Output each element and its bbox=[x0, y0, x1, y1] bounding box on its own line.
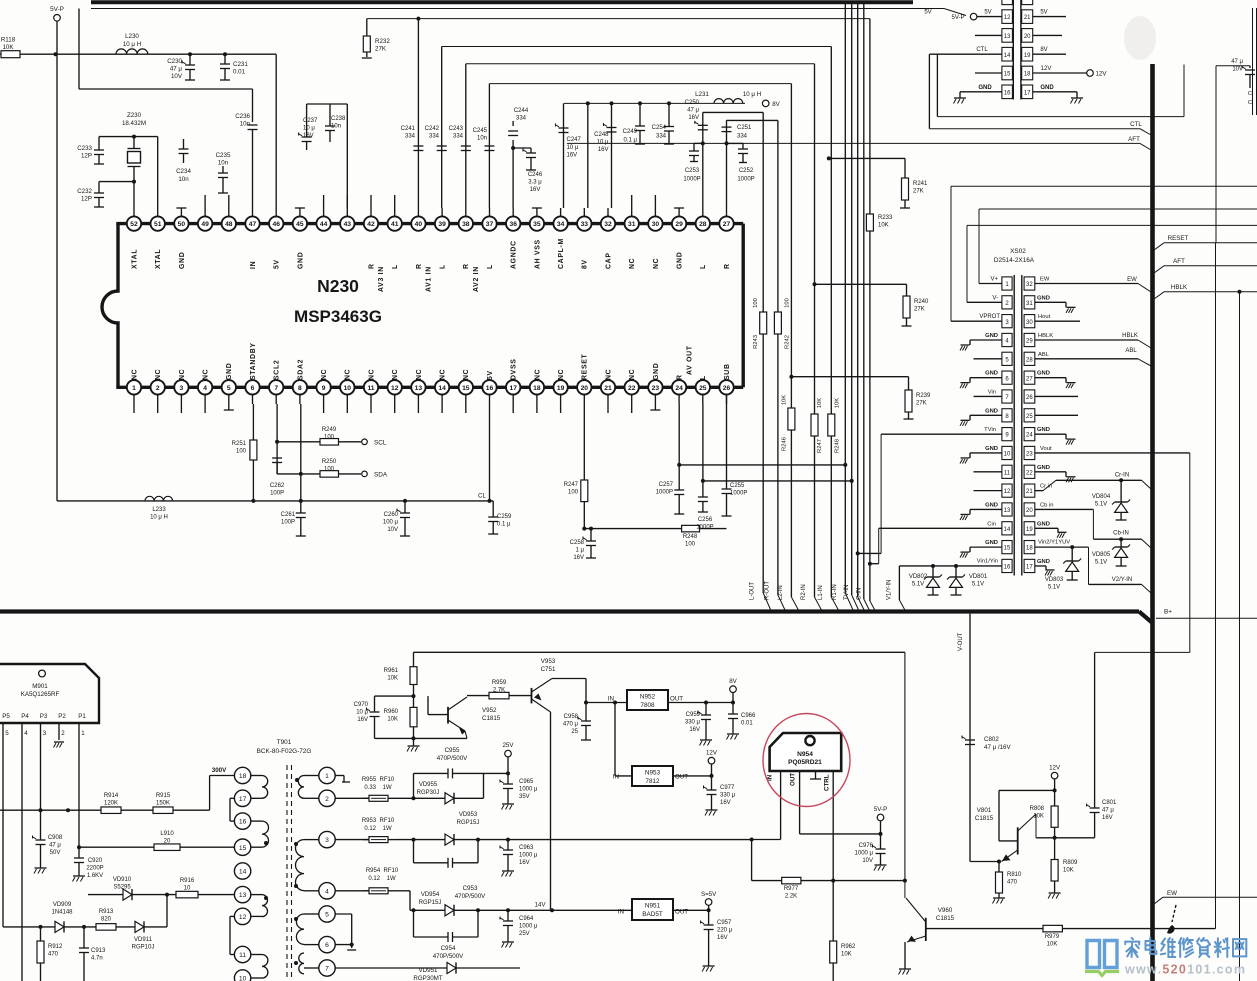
wire XS02 pin15 GND bbox=[970, 546, 1002, 548]
svg-text:CTL: CTL bbox=[1130, 121, 1142, 128]
connector XS02 body bbox=[1013, 275, 1015, 576]
capacitor C254 bbox=[667, 101, 671, 105]
wire XS02 VPROT bbox=[951, 320, 1002, 322]
svg-text:18: 18 bbox=[1026, 546, 1033, 552]
pin 42 bbox=[364, 216, 378, 230]
svg-text:28: 28 bbox=[1026, 357, 1033, 363]
svg-text:334: 334 bbox=[453, 133, 464, 139]
resistor R953 RF10 bbox=[369, 837, 388, 843]
svg-text:12V: 12V bbox=[706, 750, 718, 757]
svg-text:16: 16 bbox=[239, 819, 247, 826]
svg-text:R: R bbox=[368, 263, 375, 269]
svg-text:5V-P: 5V-P bbox=[874, 806, 887, 813]
diode VD909 bbox=[55, 921, 64, 932]
svg-text:L233: L233 bbox=[152, 507, 166, 513]
M901 P2 ground bbox=[54, 741, 64, 743]
pin 22 bbox=[625, 380, 639, 394]
svg-text:100: 100 bbox=[568, 489, 579, 495]
pin 4 bbox=[198, 380, 212, 394]
wire pin14 box drop bbox=[936, 54, 938, 116]
svg-text:10: 10 bbox=[344, 385, 352, 392]
transistor V953 bbox=[531, 688, 533, 704]
wire from top to C236 bbox=[78, 9, 80, 90]
svg-text:NC: NC bbox=[534, 369, 541, 380]
svg-text:C251: C251 bbox=[737, 125, 752, 131]
wire pin4 row bbox=[335, 890, 369, 892]
pin 8 bbox=[293, 380, 307, 394]
svg-text:R251: R251 bbox=[232, 441, 247, 447]
svg-text:C230: C230 bbox=[167, 58, 182, 65]
gray smudge bbox=[1124, 16, 1156, 60]
capacitor C245 bbox=[484, 145, 494, 147]
svg-text:10K: 10K bbox=[817, 398, 823, 408]
wire XS02 Vout bbox=[1035, 452, 1190, 454]
pin 1 bbox=[127, 380, 141, 394]
svg-text:10K: 10K bbox=[2, 44, 14, 51]
svg-text:330 μ: 330 μ bbox=[685, 719, 701, 725]
svg-text:HBLK: HBLK bbox=[1038, 333, 1053, 339]
svg-text:14: 14 bbox=[1004, 53, 1011, 59]
T901 pin 1 bbox=[319, 767, 335, 783]
wire L910 row bbox=[77, 845, 81, 849]
N954 pin CTRL bbox=[832, 771, 834, 881]
svg-text:8: 8 bbox=[298, 385, 302, 392]
wire vertical bus4 bbox=[863, 3, 865, 599]
T901 pin 2 bbox=[319, 790, 335, 806]
IC N230 body bbox=[102, 224, 118, 388]
svg-text:48: 48 bbox=[225, 221, 233, 228]
pin 19 bbox=[553, 380, 567, 394]
capacitor C234 bbox=[183, 139, 185, 149]
wire vertical L2-IN bbox=[790, 84, 792, 597]
svg-text:27: 27 bbox=[723, 221, 731, 228]
svg-text:Vin: Vin bbox=[988, 389, 996, 395]
pin 28 bbox=[696, 216, 710, 230]
wire XS02 ABL bbox=[1035, 358, 1138, 360]
pin 50 bbox=[174, 216, 188, 230]
svg-text:C236: C236 bbox=[235, 113, 250, 120]
svg-text:7: 7 bbox=[274, 385, 278, 392]
svg-text:C908: C908 bbox=[48, 835, 63, 841]
wire pin15 stub bbox=[975, 72, 1002, 74]
T901 pin 10 bbox=[234, 970, 250, 981]
diode VD955 bbox=[414, 797, 446, 799]
svg-text:16V: 16V bbox=[688, 115, 699, 121]
svg-text:47 μ: 47 μ bbox=[170, 66, 183, 73]
svg-text:R959: R959 bbox=[492, 680, 507, 686]
T901 right winding 6-7 bbox=[299, 953, 304, 974]
svg-text:D2514-2X16A: D2514-2X16A bbox=[994, 257, 1035, 264]
svg-text:14: 14 bbox=[1004, 527, 1011, 533]
capacitor C959 bbox=[705, 703, 707, 716]
svg-text:HBLK: HBLK bbox=[1122, 333, 1138, 339]
pin 15 bbox=[459, 380, 473, 394]
section divider thick line bbox=[0, 609, 1139, 613]
svg-text:R: R bbox=[677, 374, 684, 380]
svg-text:35V: 35V bbox=[519, 794, 530, 800]
pin 37 bbox=[482, 216, 496, 230]
pin 40 bbox=[411, 216, 425, 230]
svg-text:RESET: RESET bbox=[582, 353, 589, 380]
svg-text:L1-IN: L1-IN bbox=[818, 585, 824, 600]
svg-text:11: 11 bbox=[367, 385, 374, 392]
svg-text:RGP15J: RGP15J bbox=[419, 900, 442, 906]
wire pin19 8V bbox=[1033, 53, 1066, 55]
svg-text:16V: 16V bbox=[1102, 815, 1113, 821]
svg-text:49: 49 bbox=[201, 221, 209, 228]
svg-text:16V: 16V bbox=[717, 935, 728, 941]
svg-text:18.432M: 18.432M bbox=[122, 120, 146, 127]
svg-text:R118: R118 bbox=[1, 37, 16, 44]
diode VD954 bbox=[445, 905, 454, 916]
svg-text:EW: EW bbox=[1040, 277, 1050, 283]
svg-text:IN: IN bbox=[608, 696, 614, 703]
wire XS02 pin26 stub right bbox=[1035, 395, 1078, 397]
capacitor top-right 47u bbox=[1216, 65, 1250, 67]
svg-text:C963: C963 bbox=[519, 845, 534, 851]
resistor R240 tap bbox=[813, 282, 817, 286]
svg-text:2.7K: 2.7K bbox=[493, 688, 505, 694]
svg-text:R247: R247 bbox=[564, 482, 579, 488]
svg-text:R808: R808 bbox=[1030, 806, 1045, 812]
wire pin38 riser bbox=[465, 64, 467, 208]
svg-text:0.1 μ: 0.1 μ bbox=[497, 521, 511, 527]
svg-text:50V: 50V bbox=[50, 850, 61, 856]
svg-text:10: 10 bbox=[239, 976, 247, 981]
svg-text:TV-IN: TV-IN bbox=[844, 585, 850, 600]
svg-text:4: 4 bbox=[203, 385, 207, 392]
svg-text:100: 100 bbox=[324, 467, 335, 473]
thick bus vertical bbox=[1150, 64, 1155, 981]
label RESET right bbox=[1154, 243, 1164, 250]
wire CL rail bbox=[56, 500, 58, 502]
resistor R962 bbox=[832, 881, 834, 941]
transistor V960 bbox=[904, 881, 906, 898]
svg-text:NC: NC bbox=[368, 369, 375, 380]
T901 pin 16 bbox=[234, 813, 250, 829]
resistor R810 bbox=[998, 862, 1000, 873]
wire vertical R1-IN bbox=[844, 3, 846, 593]
svg-text:ABL: ABL bbox=[1038, 352, 1050, 358]
svg-text:12: 12 bbox=[239, 914, 247, 921]
resistor R248b bbox=[828, 414, 835, 436]
wire N952 feed bbox=[585, 679, 587, 703]
svg-text:ABL: ABL bbox=[1125, 348, 1137, 354]
capacitor C231 bbox=[223, 52, 227, 56]
resistor R248 bbox=[682, 525, 700, 532]
wire P5 vertical bbox=[2, 740, 4, 927]
svg-text:GND: GND bbox=[985, 408, 998, 414]
svg-text:470P/500V: 470P/500V bbox=[455, 893, 486, 900]
svg-text:18: 18 bbox=[533, 385, 541, 392]
wire N952 out 8V bbox=[668, 702, 733, 704]
svg-text:41: 41 bbox=[391, 221, 399, 228]
svg-text:C262: C262 bbox=[270, 483, 285, 489]
IC bottom pin bus bbox=[116, 386, 743, 389]
svg-text:GND: GND bbox=[1037, 371, 1050, 377]
svg-text:AV1 IN: AV1 IN bbox=[426, 266, 433, 292]
pin 21 bbox=[601, 380, 615, 394]
wire vertical R-OUT bbox=[727, 119, 778, 121]
svg-text:NC: NC bbox=[629, 258, 636, 269]
svg-text:38: 38 bbox=[462, 221, 470, 228]
resistor R809 bbox=[1054, 838, 1056, 860]
terminal 8V (L231) bbox=[762, 100, 769, 107]
svg-text:C250: C250 bbox=[685, 100, 700, 106]
capacitor C958 bbox=[585, 703, 587, 722]
diode VD951 partial bbox=[335, 967, 447, 969]
svg-text:8V: 8V bbox=[1040, 47, 1047, 53]
svg-text:Vin2/Y1YUV: Vin2/Y1YUV bbox=[1038, 540, 1070, 546]
svg-text:334: 334 bbox=[737, 134, 748, 140]
T901 left winding 16-15 bbox=[262, 821, 269, 847]
svg-text:16V: 16V bbox=[357, 717, 368, 723]
svg-text:50: 50 bbox=[178, 221, 186, 228]
pin 12 bbox=[388, 380, 402, 394]
pin 43 bbox=[340, 216, 354, 230]
svg-text:31: 31 bbox=[628, 221, 636, 228]
svg-text:AV OUT: AV OUT bbox=[687, 345, 694, 375]
svg-text:NC: NC bbox=[629, 369, 636, 380]
svg-text:27: 27 bbox=[1026, 376, 1033, 382]
svg-text:7: 7 bbox=[325, 966, 329, 973]
pin 16 bbox=[482, 380, 496, 394]
svg-text:C248: C248 bbox=[594, 132, 609, 138]
svg-text:C234: C234 bbox=[176, 168, 191, 175]
svg-text:15: 15 bbox=[1004, 546, 1011, 552]
svg-text:8V: 8V bbox=[729, 678, 737, 685]
svg-text:220 μ: 220 μ bbox=[717, 927, 733, 933]
svg-text:8V: 8V bbox=[772, 101, 780, 108]
svg-text:GND: GND bbox=[677, 252, 684, 269]
svg-text:SCL2: SCL2 bbox=[274, 360, 281, 380]
svg-text:C958: C958 bbox=[564, 714, 579, 720]
wire XS02 pin11 stub bbox=[974, 471, 1002, 473]
svg-text:12: 12 bbox=[1004, 489, 1011, 495]
svg-text:18: 18 bbox=[239, 773, 247, 780]
wire CTL pin14 bbox=[929, 53, 1002, 55]
wire AFT horizontal bbox=[567, 142, 1140, 144]
svg-text:0.01: 0.01 bbox=[741, 720, 753, 726]
T901 left winding 13-12 bbox=[262, 895, 268, 917]
svg-text:R912: R912 bbox=[48, 944, 63, 950]
svg-text:N951: N951 bbox=[645, 903, 661, 910]
T901 pin 18 bbox=[234, 767, 250, 783]
wire XS02 pin10 GND bbox=[970, 452, 1002, 454]
svg-text:1000 μ: 1000 μ bbox=[519, 923, 538, 929]
capacitor C963 bbox=[507, 840, 509, 850]
svg-text:IN: IN bbox=[618, 909, 624, 916]
svg-text:VD804: VD804 bbox=[1092, 494, 1111, 500]
svg-text:330 μ: 330 μ bbox=[720, 792, 736, 798]
svg-text:10V: 10V bbox=[862, 858, 873, 864]
svg-text:100: 100 bbox=[784, 298, 790, 308]
svg-text:16V: 16V bbox=[567, 153, 578, 159]
capacitor C255 bbox=[726, 395, 728, 490]
svg-text:100: 100 bbox=[236, 448, 247, 454]
svg-text:21: 21 bbox=[1024, 15, 1031, 21]
svg-text:10K: 10K bbox=[387, 716, 398, 722]
svg-text:NC: NC bbox=[345, 369, 352, 380]
svg-text:R246: R246 bbox=[782, 437, 788, 451]
svg-text:10K: 10K bbox=[782, 395, 788, 405]
svg-text:C237: C237 bbox=[303, 118, 318, 124]
svg-text:L: L bbox=[700, 375, 707, 380]
svg-text:5V: 5V bbox=[487, 370, 494, 380]
svg-text:16: 16 bbox=[1004, 90, 1011, 96]
svg-text:NC: NC bbox=[392, 369, 399, 380]
svg-text:HBLK: HBLK bbox=[1171, 284, 1188, 291]
label EW right bbox=[1154, 897, 1163, 904]
resistor R246 bbox=[788, 408, 795, 430]
capacitor C970 bbox=[374, 696, 376, 712]
pin 47 bbox=[245, 216, 259, 230]
resistor R249 bbox=[277, 441, 320, 443]
svg-text:C256: C256 bbox=[698, 517, 713, 523]
wire XS02 pin31 GND right bbox=[1035, 301, 1066, 303]
svg-text:GND: GND bbox=[985, 540, 998, 546]
svg-text:0.33 1W: 0.33 1W bbox=[364, 785, 392, 791]
svg-text:2: 2 bbox=[61, 730, 65, 737]
capacitor C258 bbox=[589, 527, 593, 531]
pin 52 bbox=[127, 216, 141, 230]
wire pin17 GND bbox=[1033, 91, 1077, 93]
wire vertical C-IN (R233) bbox=[869, 19, 871, 214]
svg-text:VPROT: VPROT bbox=[979, 314, 1000, 320]
wire Vout link bbox=[1095, 651, 1190, 653]
wire right vertical 1239 bbox=[1239, 292, 1241, 981]
svg-text:R977: R977 bbox=[784, 886, 799, 892]
svg-text:16V: 16V bbox=[689, 727, 700, 733]
svg-text:334: 334 bbox=[656, 133, 667, 139]
svg-text:470: 470 bbox=[1007, 879, 1018, 885]
svg-text:7808: 7808 bbox=[640, 702, 655, 709]
pin 6 bbox=[245, 380, 259, 394]
svg-text:C235: C235 bbox=[216, 152, 231, 159]
svg-text:C: C bbox=[1248, 100, 1252, 106]
svg-text:RGP10J: RGP10J bbox=[132, 945, 155, 951]
svg-text:334: 334 bbox=[429, 133, 440, 139]
terminal 8V out bbox=[730, 686, 737, 693]
svg-text:GND: GND bbox=[297, 252, 304, 269]
svg-text:L: L bbox=[392, 264, 399, 269]
pin 23 bbox=[648, 380, 662, 394]
svg-text:27K: 27K bbox=[914, 306, 925, 312]
svg-text:C233: C233 bbox=[77, 145, 92, 152]
svg-text:23: 23 bbox=[1026, 452, 1033, 458]
capacitor C236 bbox=[248, 124, 258, 126]
svg-text:1000 μ: 1000 μ bbox=[519, 786, 538, 792]
svg-text:TVin: TVin bbox=[984, 427, 996, 433]
terminal 5V-P bottom bbox=[877, 814, 884, 821]
pin 13 bbox=[411, 380, 425, 394]
svg-text:3: 3 bbox=[43, 730, 47, 737]
wire XS02 pin22 GND right bbox=[1035, 471, 1066, 473]
pin 2 bbox=[151, 380, 165, 394]
svg-text:Vin1/Yin: Vin1/Yin bbox=[977, 558, 998, 564]
crystal bottom node bbox=[99, 181, 134, 183]
svg-text:11: 11 bbox=[1004, 470, 1011, 476]
svg-text:18: 18 bbox=[1024, 72, 1031, 78]
resistor R242 bbox=[774, 312, 781, 334]
svg-text:5.1V: 5.1V bbox=[912, 581, 924, 587]
svg-text:27K: 27K bbox=[375, 46, 387, 53]
svg-text:3.3 μ: 3.3 μ bbox=[528, 179, 542, 185]
svg-text:3: 3 bbox=[325, 837, 329, 844]
svg-text:GND: GND bbox=[226, 363, 233, 380]
svg-text:C244: C244 bbox=[514, 108, 529, 114]
T901 right winding 5-6 bbox=[296, 914, 304, 944]
svg-text:10V: 10V bbox=[387, 527, 398, 533]
svg-text:GND: GND bbox=[1037, 465, 1050, 471]
svg-text:C-IN: C-IN bbox=[856, 588, 862, 600]
transistor V801 bbox=[1017, 827, 1019, 854]
svg-text:VD953: VD953 bbox=[459, 812, 478, 818]
diode VD953 bbox=[445, 834, 454, 845]
resistor R916 bbox=[165, 893, 169, 897]
pin 11 bbox=[364, 380, 378, 394]
wire XS02 Vin1/Yin bbox=[899, 565, 1002, 567]
svg-text:10 μ: 10 μ bbox=[303, 126, 315, 132]
svg-text:C970: C970 bbox=[354, 702, 369, 708]
svg-text:STANDBY: STANDBY bbox=[250, 342, 257, 380]
svg-text:C259: C259 bbox=[497, 514, 512, 520]
pin 9 bbox=[316, 380, 330, 394]
wire bottom V952 bbox=[375, 737, 468, 739]
resistor R239 tap bbox=[789, 375, 793, 379]
inductor L231 bbox=[714, 99, 743, 104]
ink mark bbox=[1167, 925, 1175, 934]
crystal Z230 top node bbox=[99, 136, 158, 138]
wire emitter node bbox=[970, 861, 999, 863]
svg-text:14V: 14V bbox=[534, 902, 546, 909]
svg-text:L-OUT: L-OUT bbox=[750, 582, 756, 600]
svg-text:16V: 16V bbox=[573, 555, 584, 561]
svg-text:IN: IN bbox=[613, 774, 619, 781]
pin 10 bbox=[340, 380, 354, 394]
svg-text:VD803: VD803 bbox=[1045, 577, 1064, 583]
resistor R914 bbox=[101, 807, 121, 814]
svg-text:5.1V: 5.1V bbox=[1095, 501, 1107, 507]
capacitor C908 bbox=[40, 810, 42, 840]
svg-text:31: 31 bbox=[1026, 301, 1033, 307]
svg-text:10 μ H: 10 μ H bbox=[743, 91, 761, 98]
svg-text:NC: NC bbox=[321, 369, 328, 380]
svg-text:OUT: OUT bbox=[675, 909, 688, 916]
svg-text:GND: GND bbox=[1037, 295, 1050, 301]
pin 18 bbox=[530, 380, 544, 394]
svg-text:25: 25 bbox=[699, 385, 707, 392]
wire V-OUT vertical bbox=[969, 614, 971, 862]
svg-text:RGP30MT: RGP30MT bbox=[413, 975, 442, 981]
wire vertical bus2 bbox=[851, 3, 853, 595]
svg-text:SDA: SDA bbox=[374, 472, 388, 479]
svg-text:Cr-IN: Cr-IN bbox=[1115, 473, 1129, 479]
capacitor C966 bbox=[732, 703, 734, 715]
svg-text:R2-IN: R2-IN bbox=[801, 584, 807, 600]
wire XS02 Cb in bbox=[1035, 508, 1094, 510]
terminal 5V-P (top-left) bbox=[54, 14, 61, 21]
svg-text:B+: B+ bbox=[1164, 609, 1172, 616]
svg-text:C261: C261 bbox=[281, 512, 296, 518]
svg-text:5.1V: 5.1V bbox=[972, 581, 984, 587]
svg-text:DVSS: DVSS bbox=[511, 358, 518, 380]
svg-text:22: 22 bbox=[628, 385, 636, 392]
svg-text:R913: R913 bbox=[99, 909, 114, 915]
pin 20 bbox=[577, 380, 591, 394]
wire pin8 SDA node bbox=[300, 404, 302, 501]
terminal 12V out bbox=[708, 757, 715, 764]
